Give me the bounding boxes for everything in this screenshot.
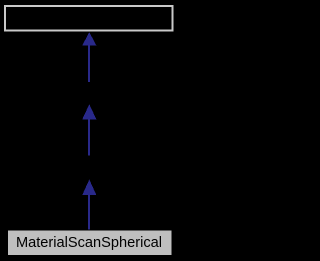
inheritance arrow 1 shaft (wire) [88, 45, 90, 82]
node MaterialScanSpherical (current class box) [8, 231, 172, 255]
inheritance arrow 1 head [82, 32, 96, 45]
inheritance arrow 2 head [82, 104, 96, 119]
inheritance arrow 3 shaft (wire) [88, 195, 90, 230]
inheritance arrow 3 head [82, 180, 96, 195]
base class box (empty, top node) [5, 6, 173, 31]
inheritance arrow 2 shaft (wire) [88, 119, 90, 155]
svg-text:MaterialScanSpherical: MaterialScanSpherical [16, 235, 162, 251]
